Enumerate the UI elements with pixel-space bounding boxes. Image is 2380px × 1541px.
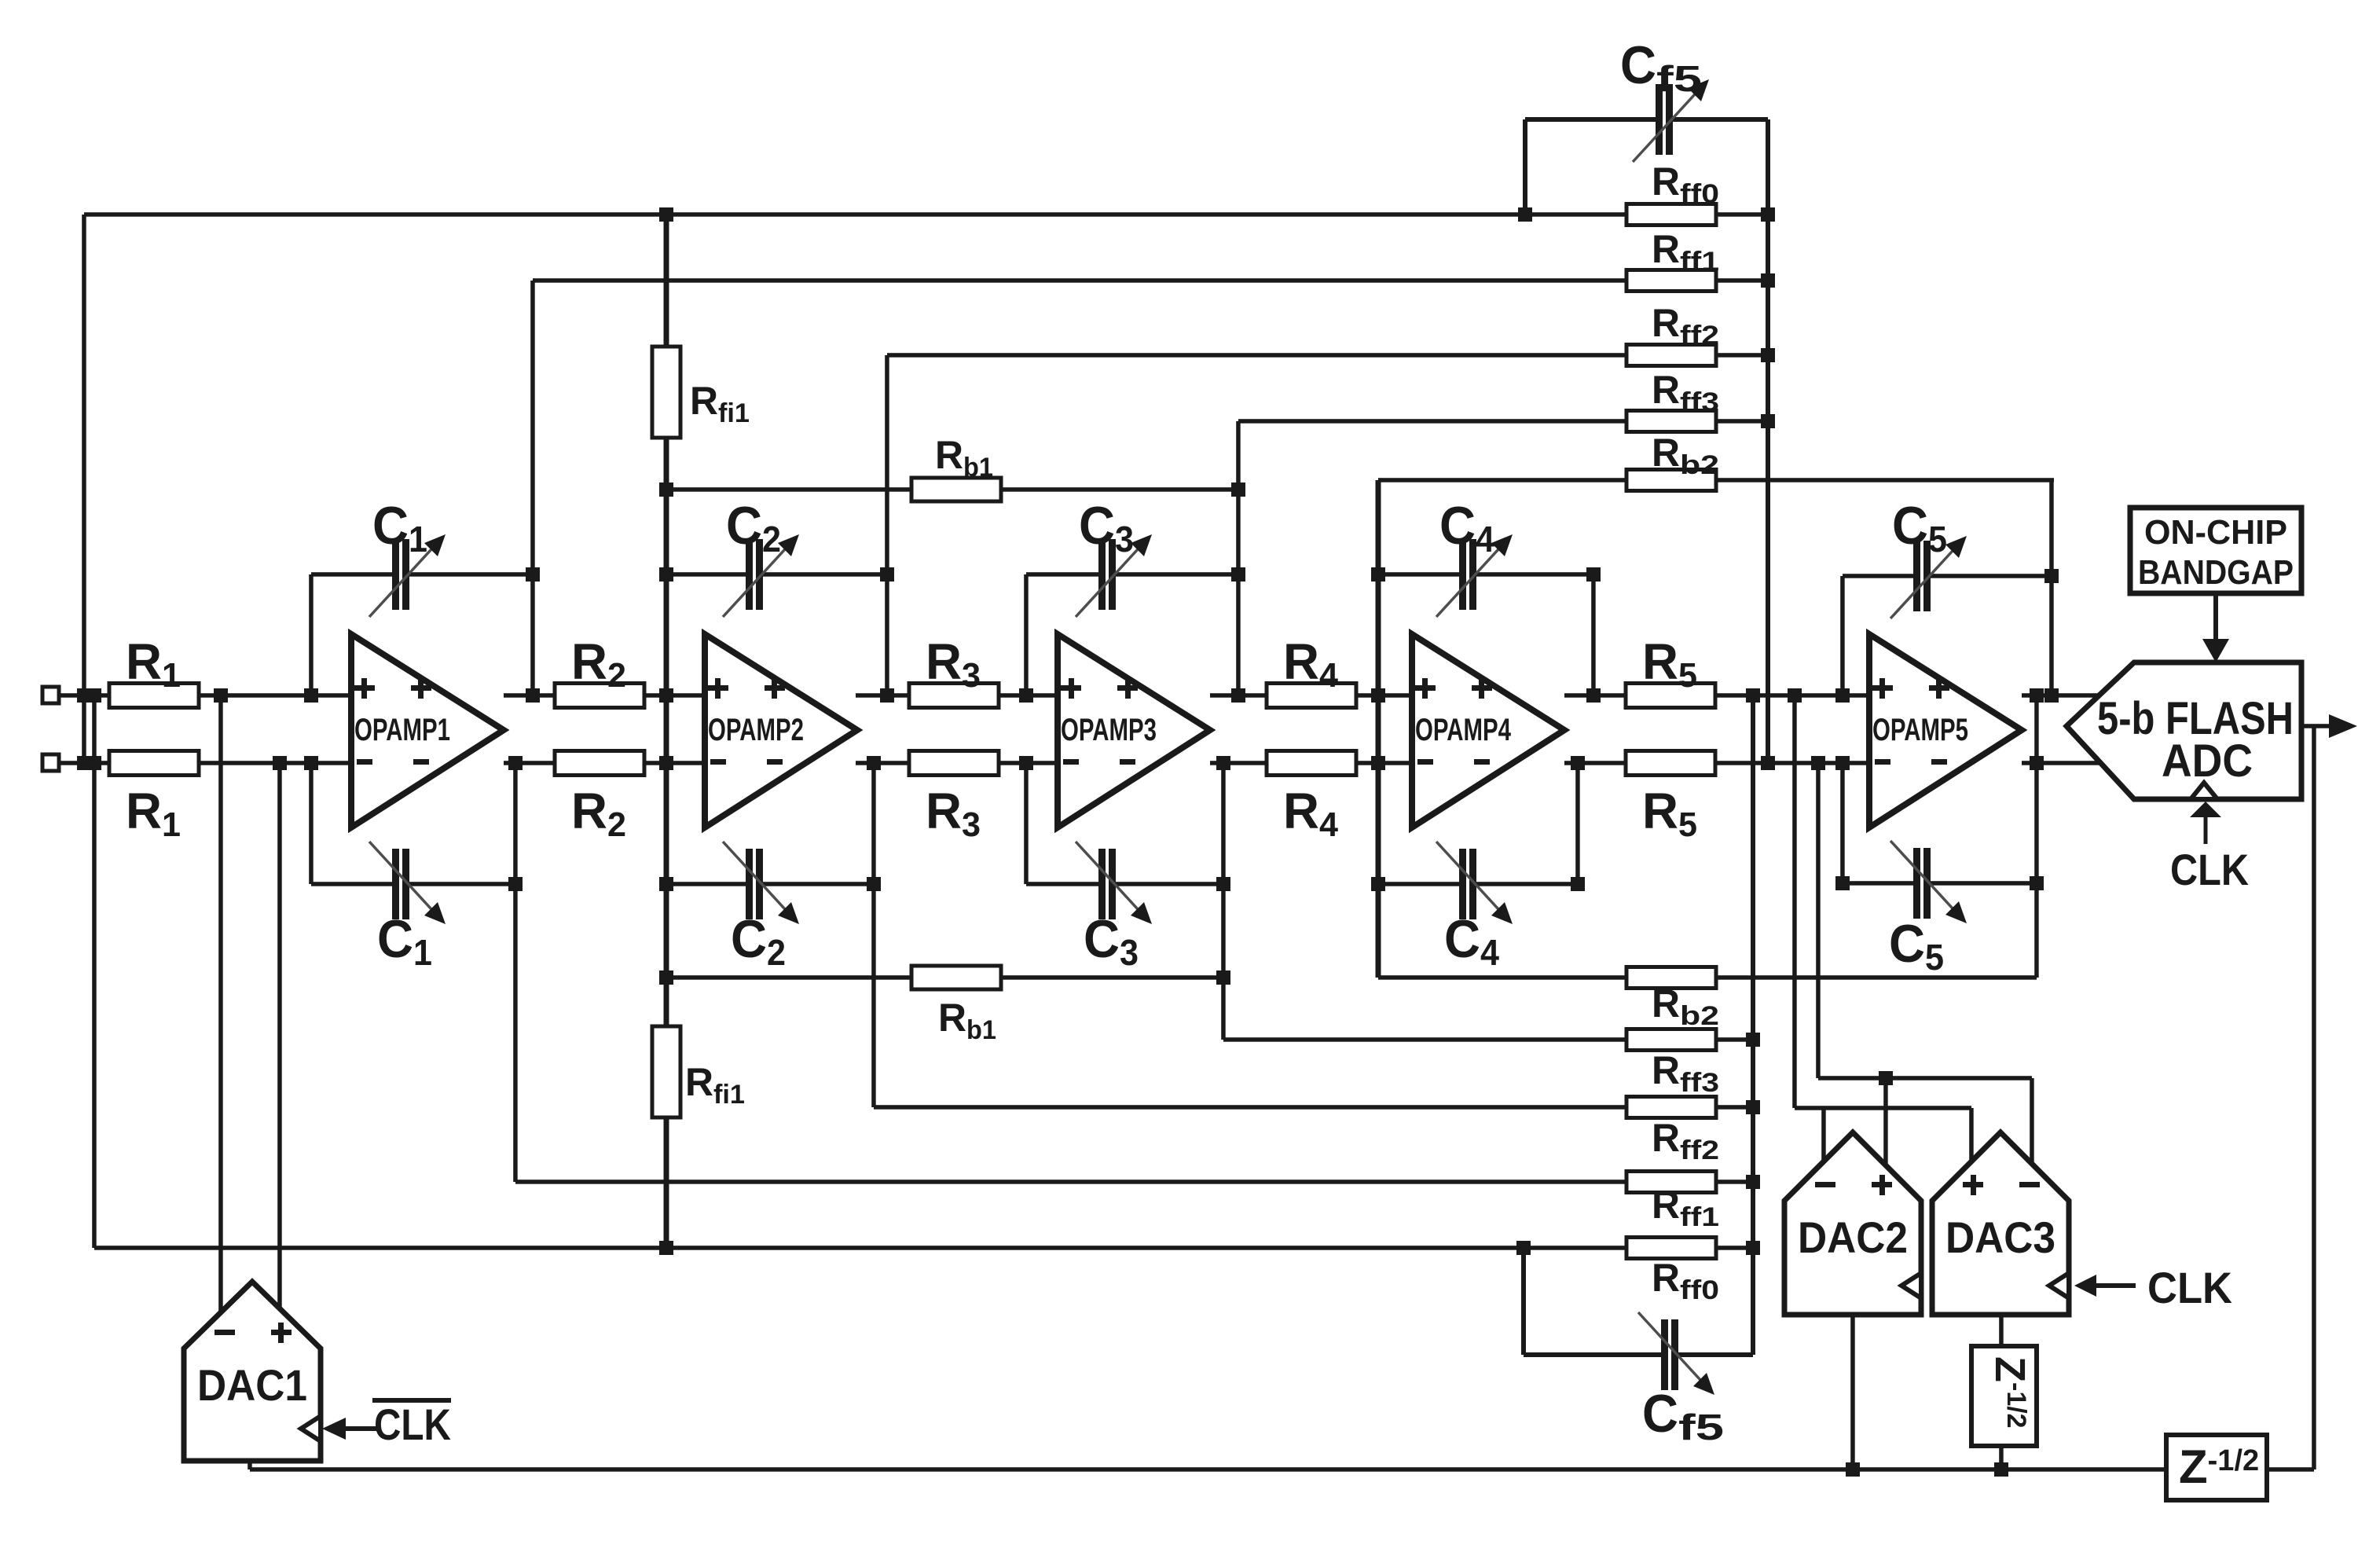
svg-text:DAC2: DAC2: [1798, 1213, 1908, 1262]
svg-text:ADC: ADC: [2162, 736, 2253, 787]
svg-text:DAC3: DAC3: [1945, 1213, 2055, 1262]
svg-text:CLK: CLK: [2170, 845, 2249, 894]
svg-text:DAC1: DAC1: [197, 1360, 307, 1410]
svg-text:OPAMP1: OPAMP1: [354, 713, 450, 747]
svg-text:OPAMP3: OPAMP3: [1061, 713, 1157, 747]
svg-text:CLK: CLK: [2147, 1263, 2232, 1312]
svg-text:CLK: CLK: [374, 1400, 451, 1449]
svg-text:BANDGAP: BANDGAP: [2138, 553, 2294, 592]
svg-text:ON-CHIP: ON-CHIP: [2144, 513, 2287, 552]
svg-text:OPAMP4: OPAMP4: [1415, 713, 1512, 747]
svg-text:OPAMP2: OPAMP2: [708, 713, 804, 747]
svg-text:OPAMP5: OPAMP5: [1872, 713, 1968, 747]
